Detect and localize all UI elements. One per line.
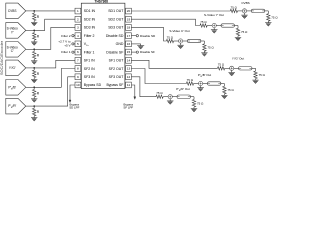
svg-text:P′B/B′: P′B/B′ bbox=[8, 85, 16, 90]
input connector Y/G bbox=[6, 60, 26, 76]
wire cable to load (Pb/B out) bbox=[221, 83, 225, 85]
svg-text:SD3 IN: SD3 IN bbox=[84, 26, 96, 30]
resistor 75 ohm load (CVBS) bbox=[267, 11, 269, 14]
wire Y/G out output feed bbox=[131, 60, 217, 68]
ground (load S-Video C out) bbox=[201, 52, 207, 54]
resistor R (input termination S-Video C) bbox=[33, 49, 35, 51]
svg-text:SD1 OUT: SD1 OUT bbox=[108, 9, 124, 13]
wire cable to load (S-Video C out) bbox=[201, 40, 205, 42]
wire CVBS output feed bbox=[131, 10, 230, 12]
ground (RCA jack Y/G out) bbox=[231, 70, 233, 72]
pin 11 (Bypass SF) bbox=[126, 82, 132, 88]
coax cable (Pr/R out) bbox=[177, 95, 191, 98]
svg-text:Bypass SD: Bypass SD bbox=[84, 83, 102, 87]
svg-text:5: 5 bbox=[77, 42, 79, 46]
ground (RCA jack Pr/R out) bbox=[169, 99, 171, 101]
svg-text:75 Ω: 75 Ω bbox=[200, 20, 207, 24]
pin 3 (SD3 IN) bbox=[75, 25, 81, 31]
pin 16 (GND) bbox=[126, 41, 132, 47]
svg-text:75 Ω: 75 Ω bbox=[167, 35, 174, 39]
svg-text:18: 18 bbox=[127, 26, 131, 30]
wire Pb/B input to junction bbox=[26, 86, 34, 88]
pin 1 (SD1 IN) bbox=[75, 8, 81, 14]
svg-text:Y′/G′: Y′/G′ bbox=[9, 66, 16, 70]
svg-text:SF1 OUT: SF1 OUT bbox=[109, 59, 125, 63]
node Disable SD terminal bbox=[131, 35, 136, 37]
wire pin 10 Bypass SD to LPF arrow bbox=[70, 85, 75, 100]
ground (input Pb/B) bbox=[31, 98, 37, 100]
input connector S-Video Y bbox=[6, 23, 26, 39]
coax cable (CVBS) bbox=[251, 9, 264, 12]
resistor 75 ohm load (Pb/B out) bbox=[223, 84, 225, 87]
svg-text:SF3 OUT: SF3 OUT bbox=[109, 75, 125, 79]
pin 18 (SD3 OUT) bbox=[126, 25, 132, 31]
wire jack to cable (Pb/B out) bbox=[203, 83, 208, 85]
wire Y/G input to junction bbox=[26, 67, 34, 69]
resistor 75 ohm load (Y/G out) bbox=[255, 68, 257, 71]
svg-text:SD LPF: SD LPF bbox=[69, 106, 79, 110]
resistor 75 ohm series (S-Video Y out) bbox=[200, 24, 207, 27]
connector RCA jack (CVBS) bbox=[242, 9, 246, 13]
svg-text:15: 15 bbox=[127, 50, 131, 54]
pin 10 (Bypass SD) bbox=[75, 82, 81, 88]
ground (input S-Video Y) bbox=[31, 41, 37, 43]
wire jack to cable (Y/G out) bbox=[234, 67, 239, 69]
svg-text:8: 8 bbox=[77, 67, 79, 71]
ground (load Pb/B out) bbox=[221, 94, 227, 96]
svg-text:Filter 2: Filter 2 bbox=[61, 34, 71, 38]
ground (RCA jack S-Video Y out) bbox=[213, 28, 215, 30]
connector RCA jack (S-Video Y out) bbox=[212, 23, 216, 27]
svg-text:75 Ω: 75 Ω bbox=[271, 16, 278, 20]
resistor 75 ohm series (Pb/B out) bbox=[186, 82, 193, 85]
svg-text:1: 1 bbox=[77, 9, 79, 13]
svg-text:Disable SD: Disable SD bbox=[140, 34, 156, 38]
svg-text:GND: GND bbox=[116, 42, 124, 46]
pin 7 (SF1 IN) bbox=[75, 58, 81, 64]
svg-text:75 Ω: 75 Ω bbox=[197, 101, 204, 105]
op-amp U1 THS7368 body bbox=[81, 3, 125, 88]
svg-text:3: 3 bbox=[77, 26, 79, 30]
svg-text:16: 16 bbox=[127, 42, 131, 46]
svg-text:Disable SD: Disable SD bbox=[106, 34, 124, 38]
input connector S-Video C bbox=[6, 42, 26, 58]
connector RCA jack (Pb/B out) bbox=[199, 81, 203, 85]
wire Pb/B out output feed bbox=[131, 69, 186, 84]
coax cable (S-Video Y out) bbox=[221, 24, 235, 27]
svg-text:Filter 1: Filter 1 bbox=[84, 50, 95, 54]
resistor R (input termination Pr/R) bbox=[33, 106, 35, 108]
resistor R (input termination S-Video Y) bbox=[33, 30, 35, 32]
svg-text:CVBS: CVBS bbox=[8, 9, 17, 13]
svg-text:75 Ω: 75 Ω bbox=[218, 63, 225, 67]
wire jack to cable (CVBS) bbox=[247, 10, 252, 12]
svg-text:11: 11 bbox=[127, 83, 130, 87]
svg-text:Disable SF: Disable SF bbox=[106, 50, 123, 54]
wire jack to cable (Pr/R out) bbox=[172, 96, 177, 98]
svg-text:20: 20 bbox=[127, 9, 131, 13]
wire Pb/B to pin 8 bbox=[34, 69, 75, 88]
node junction Y/G bbox=[33, 67, 35, 69]
svg-text:SD2 OUT: SD2 OUT bbox=[108, 18, 124, 22]
svg-text:Bypass SF: Bypass SF bbox=[106, 83, 123, 87]
resistor 75 ohm load (S-Video Y out) bbox=[237, 26, 239, 29]
pin 13 (SF2 OUT) bbox=[126, 66, 132, 72]
ground (load CVBS) bbox=[265, 22, 271, 24]
wire pin 11 Bypass SF to LPF arrow bbox=[131, 85, 134, 97]
wire CVBS to pin 1 bbox=[34, 10, 75, 12]
resistor 75 ohm series (Y/G out) bbox=[218, 67, 225, 70]
svg-text:Filter 1: Filter 1 bbox=[61, 50, 71, 54]
svg-text:75 Ω: 75 Ω bbox=[259, 73, 266, 77]
wire jack to cable (S-Video C out) bbox=[183, 40, 188, 42]
svg-text:CVBS: CVBS bbox=[241, 1, 249, 5]
svg-text:10: 10 bbox=[76, 83, 80, 87]
node junction S-Video C bbox=[33, 48, 35, 50]
svg-text:75 Ω: 75 Ω bbox=[187, 78, 194, 82]
pin 8 (SF2 IN) bbox=[75, 66, 81, 72]
svg-text:C′: C′ bbox=[11, 49, 14, 53]
ground (input S-Video C) bbox=[31, 60, 37, 62]
svg-text:P′B/B′ Out: P′B/B′ Out bbox=[198, 73, 211, 78]
svg-text:SD3 OUT: SD3 OUT bbox=[108, 26, 124, 30]
coax cable (S-Video C out) bbox=[187, 39, 201, 42]
svg-text:75 Ω: 75 Ω bbox=[241, 30, 248, 34]
ground (RCA jack S-Video C out) bbox=[180, 43, 182, 45]
wire cable to load (S-Video Y out) bbox=[235, 25, 239, 27]
svg-text:SF1 IN: SF1 IN bbox=[84, 59, 95, 63]
pin 17 (Disable SD) bbox=[126, 33, 132, 39]
wire Pr/R out output feed bbox=[131, 77, 156, 97]
wire S-Video C to pin 3 bbox=[34, 27, 75, 49]
pin 6 (Filter 1) bbox=[75, 49, 81, 55]
pin 4 (Filter 2) bbox=[75, 33, 81, 39]
ground (load S-Video Y out) bbox=[235, 36, 241, 38]
svg-text:SD2 IN: SD2 IN bbox=[84, 18, 96, 22]
pin 2 (SD2 IN) bbox=[75, 16, 81, 22]
wire S-Video Y input to junction bbox=[26, 29, 34, 31]
wire Pr/R input to junction bbox=[26, 105, 34, 107]
resistor R (input termination Pb/B) bbox=[33, 87, 35, 89]
svg-text:2: 2 bbox=[77, 17, 79, 21]
resistor 75 ohm series (CVBS) bbox=[230, 9, 237, 12]
resistor 75 ohm load (S-Video C out) bbox=[203, 41, 205, 44]
svg-text:4: 4 bbox=[77, 34, 79, 38]
wire S-Video C input to junction bbox=[26, 48, 34, 50]
input connector Pb/B bbox=[6, 80, 26, 96]
node Disable SF terminal bbox=[131, 51, 136, 53]
pin 12 (SF3 OUT) bbox=[126, 74, 132, 80]
ground (input Y/G) bbox=[31, 78, 37, 80]
pin 19 (SD2 OUT) bbox=[126, 16, 132, 22]
wire Y/G to pin 7 bbox=[34, 60, 75, 68]
resistor R (input termination Y/G) bbox=[33, 68, 35, 70]
connector RCA jack (S-Video C out) bbox=[179, 39, 183, 43]
svg-text:19: 19 bbox=[127, 17, 131, 21]
wire Pr/R to pin 9 bbox=[34, 77, 75, 106]
coax cable (Y/G out) bbox=[239, 67, 253, 70]
svg-text:P′R/R′ Out: P′R/R′ Out bbox=[176, 87, 190, 92]
svg-text:75 Ω: 75 Ω bbox=[231, 5, 238, 9]
svg-text:75 Ω: 75 Ω bbox=[156, 91, 163, 95]
ground pin 16 GND bbox=[131, 43, 140, 45]
ground (load Y/G out) bbox=[252, 79, 258, 81]
pin 15 (Disable SF) bbox=[126, 49, 132, 55]
svg-text:75 Ω: 75 Ω bbox=[227, 88, 234, 92]
pin 5 (V) bbox=[75, 41, 81, 47]
ground (RCA jack CVBS) bbox=[244, 13, 246, 15]
wire cable to load (Y/G out) bbox=[252, 67, 256, 69]
svg-text:13: 13 bbox=[127, 67, 131, 71]
node junction CVBS bbox=[33, 10, 35, 12]
svg-text:12: 12 bbox=[127, 75, 131, 79]
ground (load Pr/R out) bbox=[191, 108, 197, 110]
svg-text:75 Ω: 75 Ω bbox=[207, 46, 214, 50]
resistor 75 ohm series (S-Video C out) bbox=[166, 39, 173, 42]
svg-text:SD1 IN: SD1 IN bbox=[84, 9, 96, 13]
svg-text:Y′: Y′ bbox=[11, 30, 14, 34]
svg-text:SOC/DAC/Encoder: SOC/DAC/Encoder bbox=[0, 40, 4, 75]
input connector Pr/R bbox=[6, 98, 26, 114]
svg-text:14: 14 bbox=[127, 58, 131, 62]
wire jack to cable (S-Video Y out) bbox=[216, 25, 221, 27]
node junction Pb/B bbox=[33, 86, 35, 88]
pin 9 (SF3 IN) bbox=[75, 74, 81, 80]
ground (RCA jack Pb/B out) bbox=[200, 86, 202, 88]
svg-text:S-Video Y′ Out: S-Video Y′ Out bbox=[204, 13, 224, 17]
ground (input CVBS) bbox=[31, 21, 37, 23]
coax cable (Pb/B out) bbox=[207, 82, 221, 85]
svg-text:S-Video C′ Out: S-Video C′ Out bbox=[169, 29, 189, 33]
svg-text:7: 7 bbox=[77, 58, 79, 62]
wire cable to load (CVBS) bbox=[265, 10, 269, 12]
ground (input Pr/R) bbox=[31, 117, 37, 119]
resistor 75 ohm load (Pr/R out) bbox=[193, 97, 195, 100]
wire CVBS input to junction bbox=[26, 10, 34, 12]
svg-text:Y′/G′ Out: Y′/G′ Out bbox=[232, 57, 244, 61]
svg-text:9: 9 bbox=[77, 75, 79, 79]
svg-text:17: 17 bbox=[127, 34, 131, 38]
input connector CVBS bbox=[6, 3, 26, 19]
resistor 75 ohm series (Pr/R out) bbox=[156, 95, 163, 98]
svg-text:Disable SF: Disable SF bbox=[140, 50, 155, 54]
wire S-Video C out output feed bbox=[131, 27, 166, 41]
wire cable to load (Pr/R out) bbox=[191, 96, 195, 98]
svg-text:THS7368: THS7368 bbox=[95, 0, 109, 3]
svg-text:SF2 OUT: SF2 OUT bbox=[109, 67, 125, 71]
connector RCA jack (Y/G out) bbox=[230, 66, 234, 70]
svg-text:+5 V: +5 V bbox=[64, 43, 71, 47]
svg-text:SF2 IN: SF2 IN bbox=[84, 67, 95, 71]
svg-text:SF LPF: SF LPF bbox=[123, 106, 133, 110]
resistor R (input termination CVBS) bbox=[33, 11, 35, 13]
connector RCA jack (Pr/R out) bbox=[168, 95, 172, 99]
wire S-Video Y out output feed bbox=[131, 19, 200, 25]
svg-text:6: 6 bbox=[77, 50, 79, 54]
svg-text:P′R/R′: P′R/R′ bbox=[8, 104, 16, 109]
node junction Pr/R bbox=[33, 105, 35, 107]
node junction S-Video Y bbox=[33, 30, 35, 32]
wire S-Video Y to pin 2 bbox=[34, 19, 75, 30]
svg-text:SF3 IN: SF3 IN bbox=[84, 75, 95, 79]
svg-text:Filter 2: Filter 2 bbox=[84, 34, 95, 38]
pin 14 (SF1 OUT) bbox=[126, 58, 132, 64]
pin 20 (SD1 OUT) bbox=[126, 8, 132, 14]
